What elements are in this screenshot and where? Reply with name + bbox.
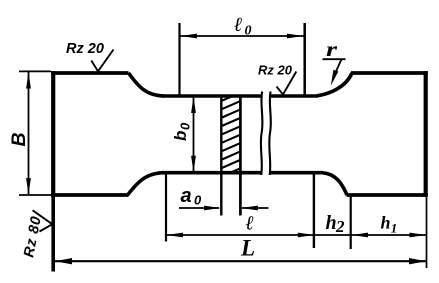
radius r leader diagonal [334,59,342,77]
svg-text:0: 0 [194,193,202,208]
hatched cross-section band left edge (extended down for a0 dimension) [220,96,222,216]
dimension h1 arrow pointing right [410,233,427,238]
gauge bottom edge right segment [269,171,323,175]
svg-text:h: h [381,213,391,233]
dimension b0 arrow down [191,156,196,173]
dimension B line [28,72,30,195]
dimension l line [167,234,315,236]
dimension l0 extension line right [303,23,306,95]
dimension L arrow left [55,258,72,264]
label l0 [234,14,252,39]
specimen top edge right grip [351,71,428,75]
svg-text:Rz 20: Rz 20 [258,63,293,78]
bottom-right shoulder fillet [323,173,347,195]
dimension l extension line left [165,173,167,242]
radius r leader bar [323,58,346,60]
dimension B arrow up [26,72,31,89]
dimension B extension line bottom [19,194,51,196]
dimension b0 line [193,97,195,173]
dimension l0 arrow left [181,34,198,39]
dimension h2 extension line right [350,196,352,250]
dimension l0 arrow right [287,34,304,39]
break wavy line right [269,92,271,176]
roughness mark Rz20 left check [91,50,113,72]
specimen bottom edge right grip [347,193,428,197]
top-left shoulder fillet [129,73,165,96]
svg-text:L: L [240,236,255,261]
gauge top edge left segment [162,94,261,98]
svg-text:h: h [326,212,337,234]
dimension a0 arrow pointing left [242,206,259,211]
radius r leader arrowhead [331,70,339,86]
dimension L arrow right [409,258,426,264]
dimension h2 extension line left [313,172,315,248]
svg-text:b: b [171,131,190,141]
dimension l arrow right [298,233,315,238]
svg-text:2: 2 [335,217,345,236]
dimension l0 extension line left [178,23,180,95]
label a0 [181,185,203,208]
hatched cross-section band right edge (extended down for a0 dimension) [239,96,242,216]
specimen bottom edge left grip [51,193,128,197]
dimension h2-h1 shared line [314,234,426,236]
top-right shoulder fillet [317,73,352,96]
break wavy line left [261,92,263,176]
label h2 [326,212,346,236]
dimension a0 line right part [242,207,269,209]
dimension L line [55,260,427,262]
dimension a0 line left part [179,207,219,209]
specimen top edge left grip [51,71,128,75]
right edge extension line down to L dimension [426,197,428,268]
specimen right edge [424,71,428,197]
dimension a0 arrow pointing right [204,206,221,211]
specimen left edge [51,71,55,197]
roughness mark Rz80 check [33,210,53,231]
svg-text:a: a [181,185,192,207]
roughness mark Rz20 gauge check [277,72,297,95]
svg-text:Rz 20: Rz 20 [66,41,104,57]
svg-text:ℓ: ℓ [246,213,255,235]
svg-text:ℓ: ℓ [234,14,243,36]
label h1 [381,213,398,236]
svg-text:0: 0 [177,122,192,130]
dimension B arrow down [26,178,31,195]
bottom-left shoulder fillet [128,173,165,195]
gauge top edge right segment [270,94,318,98]
svg-text:0: 0 [245,24,252,39]
left edge extension line down to L dimension [51,196,55,272]
dimension l0 line [181,35,304,37]
hatching of cross-section [219,91,244,186]
svg-text:B: B [8,132,30,146]
svg-text:1: 1 [391,220,398,235]
svg-text:r: r [326,38,337,61]
gauge bottom edge left segment [162,171,261,175]
dimension b0 arrow up [191,97,196,114]
svg-text:Rz 80: Rz 80 [21,215,45,259]
dimension l arrow left [167,233,184,238]
dimension h1 arrow pointing left at h2 boundary [352,233,369,238]
label b0 [171,122,192,141]
dimension B extension line top [19,70,51,72]
